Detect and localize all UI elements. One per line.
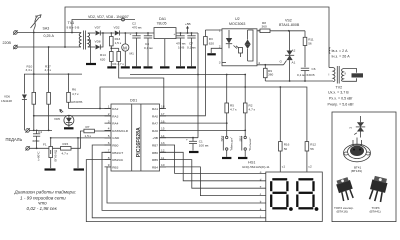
svg-text:SB2: SB2: [220, 135, 224, 141]
ground: SB2: [222, 157, 231, 159]
wire: GND line pin5: [51, 137, 111, 139]
resistor R16: [279, 142, 290, 172]
svg-text:100 мк: 100 мк: [199, 143, 209, 147]
capacitor C7: [187, 32, 196, 66]
terminal: mains bottom pin: [14, 45, 18, 49]
ground: under VD5: [64, 127, 74, 129]
svg-text:t>80°С: t>80°С: [37, 152, 41, 161]
svg-text:RB5: RB5: [152, 158, 158, 162]
wire: RA6 line to button SB1: [160, 129, 246, 131]
svg-text:с1: с1: [282, 165, 286, 169]
capacitor C6: [297, 67, 316, 81]
svg-text:0,02 - 1,98 сек: 0,02 - 1,98 сек: [27, 206, 58, 211]
svg-text:RB7: RB7: [152, 144, 158, 148]
svg-text:GNQ-5621AS(D)-11: GNQ-5621AS(D)-11: [242, 165, 270, 169]
wire: secondary bottom to VD8: [88, 46, 95, 48]
wire: pin5 ground drop: [77, 138, 79, 168]
wire: RA7 line to button SB2: [160, 122, 227, 124]
svg-text:М: М: [123, 46, 127, 51]
wire: RB0 segment loop: [92, 145, 266, 218]
svg-text:VD8: VD8: [95, 40, 101, 44]
svg-text:10 В: 10 В: [178, 46, 184, 50]
svg-text:VD5: VD5: [54, 117, 60, 121]
node: C6 bottom: [304, 80, 306, 82]
svg-text:GND: GND: [112, 136, 120, 140]
svg-text:620: 620: [100, 58, 105, 62]
svg-text:М1: М1: [130, 52, 135, 56]
wire: secondary top to rectifier: [88, 32, 95, 34]
svg-text:13: 13: [161, 141, 165, 145]
svg-text:78L05: 78L05: [157, 21, 167, 25]
svg-text:9 В + 9 В: 9 В + 9 В: [67, 26, 80, 30]
display digit 1: [271, 179, 287, 208]
wire: digit driver 1 drop: [279, 87, 281, 142]
svg-text:С6: С6: [312, 67, 316, 71]
svg-text:Pх.х. = 0,5 кВт: Pх.х. = 0,5 кВт: [329, 97, 353, 101]
MCU left pin numbers: [108, 105, 110, 167]
svg-text:3: 3: [108, 119, 110, 123]
label In currents: [329, 48, 330, 54]
svg-text:360: 360: [262, 25, 267, 29]
triac VS2: [280, 31, 296, 81]
svg-text:"Меньше": "Меньше": [229, 137, 233, 151]
wire: 5V down to PIC pin14: [197, 33, 199, 138]
svg-text:5: 5: [108, 134, 110, 138]
wire: MT1 neutral line to TV2: [265, 80, 333, 82]
wire: MOC pin4 gate line: [257, 64, 284, 66]
fuse F1: [37, 138, 58, 168]
svg-text:11: 11: [161, 156, 164, 160]
button SB2: [220, 123, 234, 157]
wire: RB7 segment line: [160, 145, 266, 173]
wire: R15 to R7: [71, 131, 84, 148]
wire: digit select line C from RA2: [100, 87, 307, 142]
svg-text:0,1 мк: 0,1 мк: [144, 46, 153, 50]
svg-text:12: 12: [161, 149, 165, 153]
terminal: mains top pin: [14, 31, 18, 35]
label segment letters: [260, 170, 262, 218]
svg-text:+5В: +5В: [152, 136, 158, 140]
svg-text:4: 4: [108, 127, 110, 131]
wire: sense tap from mains hot: [33, 33, 35, 75]
wire: mains hot line: [17, 32, 81, 34]
svg-text:8: 8: [108, 156, 110, 160]
svg-text:4: 4: [258, 61, 260, 65]
switch SA3: [34, 15, 38, 32]
terminal: pedal top: [26, 129, 30, 133]
svg-text:R14: R14: [100, 53, 106, 57]
svg-text:DD1: DD1: [130, 99, 137, 103]
diode VD2: [114, 26, 120, 36]
frame: packages box: [332, 112, 396, 222]
svg-text:RB0: RB0: [112, 144, 118, 148]
resistor R3: [204, 30, 215, 45]
ground: under C2: [132, 66, 141, 68]
resistor R6: [67, 73, 79, 102]
svg-text:ПЕДАЛЬ: ПЕДАЛЬ: [6, 137, 23, 142]
power symbol +5V: [185, 22, 191, 34]
ground: under F1: [45, 168, 56, 170]
svg-text:(ВТА41): (ВТА41): [370, 209, 381, 213]
resistor R4: [113, 52, 125, 67]
wire: R8 to triac MT2 node: [270, 30, 305, 32]
regulator DA1 78L05: [154, 17, 176, 66]
svg-text:+: +: [130, 32, 132, 36]
resistor R5: [225, 74, 237, 124]
electrode bar: [352, 73, 364, 77]
transformer TV1: [79, 31, 89, 50]
MCU pin stubs: [105, 109, 167, 167]
wire: pin14 5V feed: [160, 137, 199, 139]
capacitor C2: [130, 22, 143, 67]
svg-text:4,7 к: 4,7 к: [62, 151, 69, 155]
svg-text:220В: 220В: [3, 41, 12, 45]
svg-text:RB3: RB3: [112, 165, 118, 169]
package TO-220 insulated: [335, 177, 356, 202]
resistor R2: [243, 74, 255, 131]
resistor R13: [110, 32, 122, 51]
resistor R14: [100, 52, 113, 67]
wire: RA3 line: [34, 115, 111, 117]
svg-text:RB6: RB6: [152, 151, 158, 155]
capacitor C4: [33, 130, 43, 150]
wire: RB5 segment line: [160, 160, 266, 189]
svg-text:II: II: [345, 72, 347, 76]
diode VD7: [95, 26, 104, 36]
svg-text:SB1: SB1: [238, 135, 242, 141]
ground: pin5: [74, 168, 85, 170]
svg-text:+: +: [186, 138, 188, 142]
wire: R4 bottom to RA1 loop: [119, 61, 164, 108]
wire: mains neutral line: [17, 46, 81, 48]
svg-text:R15: R15: [63, 142, 69, 146]
svg-text:R7: R7: [86, 125, 90, 129]
transformer TV2: [329, 66, 347, 84]
svg-text:RB4: RB4: [152, 165, 158, 169]
svg-text:RA4: RA4: [112, 122, 118, 126]
wire: TV1 primary top feed: [72, 20, 135, 33]
svg-text:с2: с2: [308, 165, 312, 169]
svg-text:VS2: VS2: [285, 19, 292, 23]
package TO-3 metal can: [344, 138, 371, 162]
svg-text:1: 1: [219, 29, 221, 33]
svg-text:Iн.з. = 26 А: Iн.з. = 26 А: [332, 55, 351, 59]
svg-text:7: 7: [108, 149, 110, 153]
svg-text:Pнагр. = 5,6 кВт: Pнагр. = 5,6 кВт: [328, 103, 355, 107]
svg-text:2: 2: [219, 45, 221, 49]
label timer range text: [14, 189, 77, 212]
display HG1 box: [266, 172, 323, 222]
svg-text:Iв.з. = 2 А: Iв.з. = 2 А: [332, 49, 349, 53]
package TOP3: [367, 176, 388, 204]
MCU DD1 PIC16F628A: [111, 99, 160, 172]
svg-text:RA7: RA7: [152, 122, 158, 126]
wire: top neutral rail: [65, 7, 329, 68]
resistor R7: [84, 125, 95, 138]
ground: under DA1: [160, 66, 170, 68]
svg-text:360: 360: [268, 73, 273, 77]
svg-text:4,7 к: 4,7 к: [249, 108, 256, 112]
button SB1: [238, 130, 252, 156]
svg-text:1N4148: 1N4148: [1, 99, 12, 103]
svg-text:0,1 мк: 0,1 мк: [187, 46, 196, 50]
svg-text:RA5\MCLR: RA5\MCLR: [112, 129, 128, 133]
capacitor C1: [186, 137, 209, 151]
svg-text:I: I: [329, 73, 330, 77]
ground: under C3: [176, 66, 185, 68]
svg-text:ВТА41-800В: ВТА41-800В: [279, 23, 300, 27]
svg-text:1,5 к: 1,5 к: [115, 41, 122, 45]
triac symbol in frame: [349, 116, 365, 138]
svg-text:56: 56: [310, 147, 314, 151]
ground: MOC pin2: [207, 53, 216, 55]
svg-text:MOC3063: MOC3063: [229, 22, 245, 26]
wire: RA0 line to optocoupler: [160, 45, 206, 116]
svg-text:4,7 к: 4,7 к: [72, 92, 79, 96]
svg-text:А2: А2: [292, 49, 296, 53]
wire: RB2 segment loop: [86, 160, 265, 222]
ground: SB1: [238, 157, 247, 159]
wire: RA2 line: [69, 108, 112, 110]
svg-text:RA2: RA2: [112, 107, 118, 111]
capacitor C8: [144, 32, 153, 66]
diode VD6: [1, 94, 27, 131]
svg-text:1,5 к: 1,5 к: [85, 134, 92, 138]
wire: TV1 center tap to ground: [88, 40, 91, 63]
ground: under C1: [189, 151, 199, 153]
svg-text:3,3 к: 3,3 к: [26, 68, 33, 72]
svg-text:RA0: RA0: [152, 114, 158, 118]
wire: pedal bottom line: [29, 147, 60, 149]
wire: pedal top line: [29, 129, 52, 131]
svg-text:что: что: [38, 201, 47, 206]
display digit 1 dp: [289, 207, 293, 211]
node: gate R9 junction: [264, 64, 266, 66]
ground: under C8: [144, 66, 153, 68]
svg-text:F1: F1: [43, 142, 47, 146]
svg-text:(ВТ139): (ВТ139): [351, 169, 362, 173]
wire: DA1 output 5V: [176, 32, 198, 34]
svg-text:HG1: HG1: [248, 161, 255, 165]
ground: under M1: [121, 66, 130, 68]
resistor R12: [305, 142, 316, 172]
svg-text:0,25 А: 0,25 А: [44, 34, 55, 38]
svg-text:"Больше": "Больше": [248, 138, 252, 151]
svg-text:DA1: DA1: [159, 17, 166, 21]
svg-text:RA1: RA1: [152, 107, 158, 111]
svg-text:ВП-В-8Д: ВП-В-8Д: [54, 150, 58, 161]
resistor R17: [45, 64, 52, 130]
svg-text:А1: А1: [292, 61, 296, 65]
wire: after VD2 to DA1: [120, 32, 154, 34]
resistor R15: [61, 142, 72, 156]
node: neutral-rail junction: [64, 46, 66, 48]
svg-text:U2: U2: [235, 17, 240, 21]
wire: RB1 segment loop: [102, 152, 266, 210]
resistor R8: [260, 21, 270, 33]
svg-text:Uх.х. = 3,7 В: Uх.х. = 3,7 В: [328, 91, 349, 95]
svg-text:PIC16F628A: PIC16F628A: [136, 127, 142, 157]
svg-text:17: 17: [161, 112, 165, 116]
svg-text:0,1 мк 630 В: 0,1 мк 630 В: [297, 73, 315, 77]
svg-text:VD2: VD2: [114, 26, 120, 30]
junction circle on line: [122, 18, 125, 21]
terminal: pedal bottom: [26, 147, 30, 151]
svg-text:Диапазон работы таймера:: Диапазон работы таймера:: [14, 189, 77, 195]
resistor R11: [303, 31, 314, 67]
wire: MOC pin6 to R8: [257, 30, 260, 32]
wire: sense tap from mains neutral: [48, 47, 50, 74]
MCU left pin names: [112, 107, 128, 169]
svg-text:С4: С4: [38, 130, 42, 134]
resistor R10: [26, 64, 36, 130]
svg-text:56: 56: [284, 147, 288, 151]
wire: VD8 output up to plus node: [100, 33, 103, 47]
svg-text:4,7 к: 4,7 к: [230, 108, 237, 112]
diode VD8: [95, 40, 101, 50]
ground: under C7: [187, 66, 196, 68]
wire: MOC pin2 to ground: [211, 48, 222, 53]
svg-text:+: +: [174, 32, 176, 36]
MCU right pin names: [152, 107, 158, 169]
wire: sense line: [24, 74, 82, 93]
svg-text:(ВТА16): (ВТА16): [337, 209, 348, 213]
svg-text:6: 6: [108, 141, 110, 145]
wire: plus rail to DA1 input: [103, 32, 115, 34]
wire: RB6 segment line: [160, 152, 266, 181]
LED VD5: [54, 100, 82, 127]
node: R2A junction: [33, 115, 35, 117]
motor M1: [122, 32, 134, 66]
wire: RB4 segment line: [160, 167, 266, 196]
svg-text:VD7: VD7: [95, 26, 101, 30]
node: rectifier plus: [102, 32, 104, 34]
svg-text:АЛ307Б: АЛ307Б: [71, 100, 82, 104]
resistor R9: [264, 65, 274, 81]
svg-text:TV2: TV2: [336, 86, 343, 90]
svg-text:RA6: RA6: [152, 129, 158, 133]
wire: R3 top to MOC pin1: [205, 29, 222, 31]
svg-text:+5В: +5В: [185, 22, 191, 26]
wire: R6 bottom to RA2 line: [68, 102, 70, 108]
svg-text:18: 18: [161, 105, 165, 109]
node: MT1 line left: [289, 80, 291, 82]
display digit 2 dp: [315, 207, 319, 211]
svg-text:4,7 к: 4,7 к: [45, 68, 52, 72]
svg-text:56: 56: [308, 42, 312, 46]
MCU right pin numbers: [161, 105, 165, 167]
display digit 2: [297, 179, 313, 208]
node: R13 bottom: [110, 47, 112, 49]
svg-text:RB1\СТ: RB1\СТ: [112, 151, 123, 155]
node: VS2 MT2: [288, 30, 290, 32]
wire: plus rail A: [130, 74, 245, 76]
svg-text:TV1: TV1: [68, 21, 75, 25]
optocoupler U2 MOC3063: [219, 17, 261, 66]
wire: R13 bottom to R4 top: [111, 47, 118, 49]
wire: R7 to RA5 pin4: [94, 130, 111, 132]
wire: RB3 segment loop: [107, 167, 266, 203]
wire: TV2 secondary loop to electrode: [344, 69, 357, 73]
svg-text:SA3: SA3: [43, 26, 50, 30]
svg-text:RB2\СК: RB2\СК: [112, 158, 123, 162]
svg-text:470 мк: 470 мк: [132, 25, 142, 29]
svg-text:14: 14: [161, 134, 165, 138]
svg-text:3: 3: [219, 61, 221, 65]
svg-text:VD2, VD7, VD8 - 1N4007: VD2, VD7, VD8 - 1N4007: [88, 15, 129, 19]
svg-text:6800: 6800: [33, 139, 40, 143]
capacitor C3: [174, 32, 187, 66]
svg-text:RA3: RA3: [112, 114, 118, 118]
ground: TV1 center tap: [86, 63, 96, 65]
ground: under R14: [107, 66, 116, 68]
svg-text:620: 620: [209, 41, 214, 45]
